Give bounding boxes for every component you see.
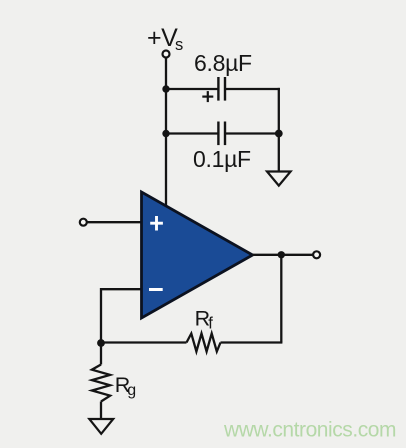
wire op-amp output [253, 254, 314, 256]
svg-text:6.8µF: 6.8µF [194, 50, 252, 76]
op-amp + input mark [150, 216, 163, 231]
svg-text:www.cntronics.com: www.cntronics.com [223, 419, 396, 442]
wire Rg to ground [100, 402, 102, 420]
wire bottom node to Rf [101, 341, 187, 343]
junction dot output / feedback [278, 251, 285, 258]
wire cap C1 left segment [166, 88, 218, 90]
ground (bypass caps) [267, 172, 291, 186]
wire right rail down to ground [278, 88, 280, 171]
wire +Vs rail down to op-amp power [165, 58, 167, 206]
svg-text:s: s [175, 36, 183, 54]
node input terminal [80, 219, 87, 226]
label Rf [195, 307, 214, 333]
wire feedback down [280, 255, 282, 343]
svg-text:+V: +V [147, 24, 178, 52]
wire cap C2 right segment [225, 132, 279, 134]
wire inverting input from op-amp to feedback node [101, 289, 142, 344]
wire cap C1 right segment to right rail [225, 88, 280, 90]
op-amp U1 [142, 192, 253, 318]
ground (Rg) [89, 419, 113, 434]
wire input to op-amp + [87, 221, 142, 223]
wire cap C2 left segment [166, 132, 218, 134]
junction dot feedback / Rg [97, 339, 105, 347]
svg-text:f: f [208, 315, 213, 333]
svg-text:g: g [127, 382, 136, 399]
node +Vs label [147, 24, 183, 54]
wire Rf to feedback rail [221, 341, 283, 343]
junction dot left rail / C1 [162, 85, 169, 92]
op-amp - input mark [149, 288, 163, 291]
junction dot left rail / C2 [162, 130, 169, 137]
label Rg [115, 373, 136, 399]
polarity plus sign of C1 [202, 91, 213, 102]
wire down to Rg [100, 343, 102, 365]
svg-text:0.1µF: 0.1µF [193, 146, 251, 172]
resistor Rg [92, 365, 110, 402]
node +Vs terminal [163, 51, 170, 58]
junction dot right rail / C2 [275, 130, 283, 138]
resistor Rf [187, 334, 221, 352]
capacitor C2 0.1uF [218, 122, 225, 146]
capacitor C1 6.8uF (polarized) [218, 77, 225, 101]
node output terminal [313, 251, 320, 258]
